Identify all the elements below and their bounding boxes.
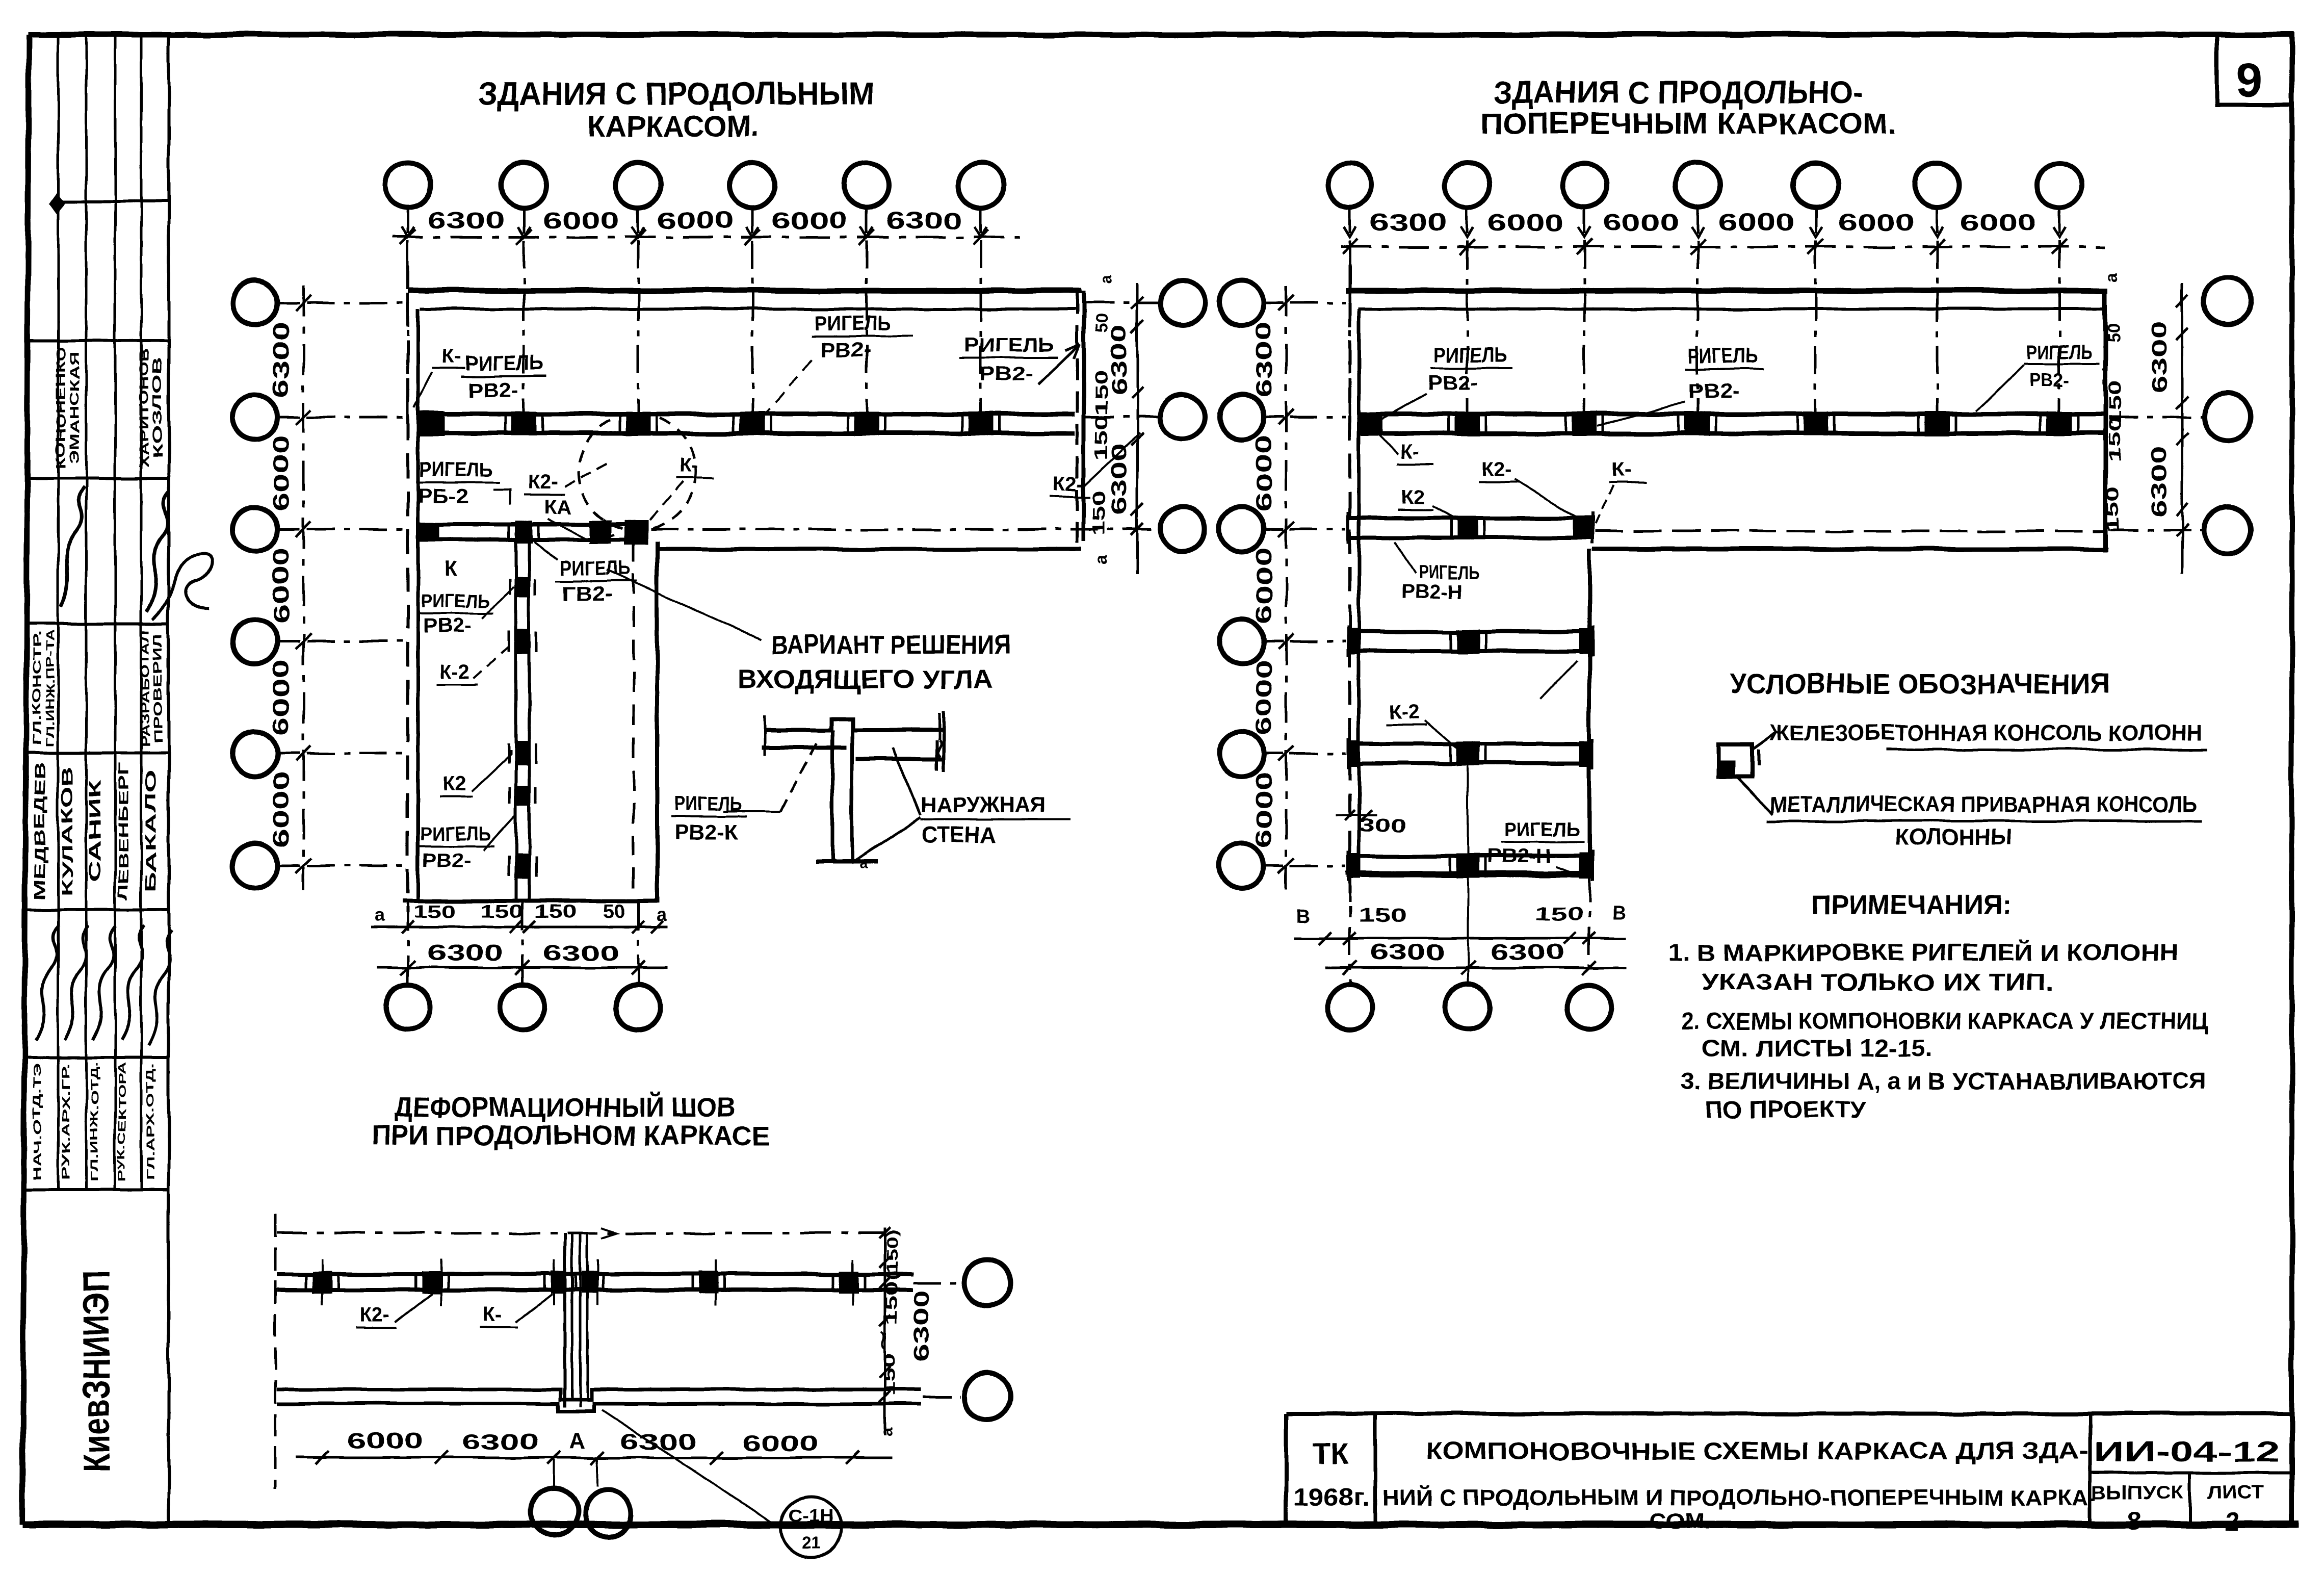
stamp divider a <box>57 200 169 203</box>
right plan east dim tick <box>2176 397 2188 409</box>
left building column K2 row2 x1028 <box>511 411 537 436</box>
leader K2 strip lower <box>472 751 511 791</box>
svg-text:ТК: ТК <box>1313 1438 1349 1471</box>
left plan west grid circle 3 <box>232 507 277 552</box>
right plan top dim tick <box>1459 239 1475 254</box>
svg-text:ГЛ.АРХ.ОТД.: ГЛ.АРХ.ОТД. <box>145 1063 156 1180</box>
stamp signature squiggle 4 <box>65 925 88 1040</box>
left plan west dimension line <box>302 286 305 890</box>
legend underline rc console <box>1886 749 2207 751</box>
left plan top dim tick <box>859 229 874 245</box>
left strip middle beam west line <box>514 539 517 899</box>
title block index horizontal divider <box>2090 1471 2291 1474</box>
corner arc arrow <box>591 519 614 542</box>
dj east dim break squiggle <box>881 1332 885 1349</box>
left building beam row 2 axis dashed <box>1086 416 1160 419</box>
dj beam row top line <box>277 1272 912 1276</box>
left strip bottom dim line 2 <box>377 967 668 969</box>
left plan east grid circle 1 <box>1160 280 1205 325</box>
dj axis extension to circle 2 <box>596 1459 598 1487</box>
left building band south wall <box>659 547 1082 551</box>
leader KA <box>548 519 591 542</box>
left strip bottom dim2 tick <box>401 961 415 975</box>
svg-text:6300: 6300 <box>909 1290 933 1361</box>
svg-text:ГЛ.КОНСТР.: ГЛ.КОНСТР. <box>30 631 43 746</box>
right plan east grid circle 3 <box>2204 507 2251 554</box>
svg-text:6000: 6000 <box>1838 209 1915 236</box>
leader K- arc dashed <box>632 482 683 539</box>
label underline mid <box>812 336 912 338</box>
right plan east dim line <box>2181 283 2184 574</box>
svg-text:КАРКАСОМ.: КАРКАСОМ. <box>588 110 759 143</box>
svg-text:МЕДВЕДЕВ: МЕДВЕДЕВ <box>32 762 48 900</box>
svg-text:ХАРИТОНОВ: ХАРИТОНОВ <box>137 348 151 468</box>
dj detail bubble divider <box>782 1527 840 1529</box>
left plan west grid axis dashed <box>307 753 405 755</box>
svg-text:6000: 6000 <box>269 435 294 511</box>
left building beam row 3 bottom line <box>420 537 637 542</box>
dj east dim line <box>884 1228 886 1435</box>
left strip south wall <box>403 899 659 903</box>
svg-text:150: 150 <box>882 1282 901 1325</box>
right strip column y1258 <box>1456 629 1480 654</box>
dj dim tick <box>709 1451 722 1464</box>
right strip row end cap east y1258 <box>1579 629 1592 654</box>
dj bottom grid circle 1 <box>531 1488 578 1535</box>
left plan top dim tick <box>631 229 646 245</box>
stamp signature squiggle 5 <box>93 925 116 1040</box>
svg-text:150: 150 <box>534 901 577 922</box>
dj axis extension to circle 1 <box>553 1459 555 1487</box>
svg-text:ПРИ ПРОДОЛЬНОМ КАРКАСЕ: ПРИ ПРОДОЛЬНОМ КАРКАСЕ <box>372 1120 770 1151</box>
svg-text:РИГЕЛЬ: РИГЕЛЬ <box>421 591 490 612</box>
left building corner junction column 1 <box>590 520 611 544</box>
right plan top grid axis dashed <box>1466 241 1469 427</box>
left plan west dim tick <box>296 522 311 537</box>
svg-text:6000: 6000 <box>1603 209 1679 236</box>
svg-text:РВ2-К: РВ2-К <box>674 821 738 844</box>
svg-text:КУЛАКОВ: КУЛАКОВ <box>59 766 76 896</box>
label underline gv2 <box>556 580 637 582</box>
svg-text:6000: 6000 <box>1960 209 2036 236</box>
left plan west dim tick <box>296 746 311 761</box>
stamp divider c <box>25 477 169 480</box>
dj east grid circle 2 <box>964 1373 1011 1420</box>
svg-text:6000: 6000 <box>1718 209 1795 236</box>
detail beam right bottom line <box>855 757 943 761</box>
right building column row2 x2878 <box>1454 411 1480 436</box>
left strip axis extension to bottom circles <box>407 903 409 985</box>
dj dim tick <box>547 1451 561 1464</box>
legend symbol side tick <box>1757 749 1760 765</box>
svg-text:6000: 6000 <box>1251 659 1276 736</box>
svg-text:РИГЕЛЬ: РИГЕЛЬ <box>2027 341 2092 364</box>
svg-text:РИГЕЛЬ: РИГЕЛЬ <box>1688 344 1757 368</box>
label underline rb2 <box>416 481 500 483</box>
right plan top dimension line <box>1341 246 2105 248</box>
leader rb2 hook <box>493 489 510 505</box>
svg-text:ВАРИАНТ РЕШЕНИЯ: ВАРИАНТ РЕШЕНИЯ <box>771 630 1011 660</box>
left plan top grid circle 2 <box>502 163 546 208</box>
right strip bottom dim tick <box>1319 932 1331 944</box>
right building beam row 2 top line <box>1360 412 2103 417</box>
dj bottom wall upper line <box>277 1389 921 1400</box>
label underline strip lower <box>417 845 494 847</box>
right strip bottom dim tick <box>1583 932 1596 944</box>
svg-text:6300: 6300 <box>462 1430 538 1455</box>
right strip bottom dim line 2 <box>1325 967 1626 969</box>
right building beam row 2 bottom line <box>1360 431 2103 436</box>
right strip row 3 east end blob <box>1573 516 1595 539</box>
dj beam row bottom line <box>277 1288 912 1292</box>
label underline r3 <box>2024 363 2099 365</box>
right plan west grid circle 5 <box>1219 731 1264 776</box>
right strip row end cap west y1478 <box>1347 741 1361 766</box>
svg-text:К2-: К2- <box>1481 458 1512 481</box>
right strip beam row 3 top line <box>1348 516 1592 520</box>
svg-text:К2-: К2- <box>1053 473 1084 495</box>
leader K-2 r strip <box>1425 721 1459 750</box>
right plan west dim tick <box>1278 634 1294 649</box>
dj east axis dashed 2 <box>923 1396 960 1398</box>
left building west wall <box>416 309 420 901</box>
right building west axis dashed <box>1348 265 1351 913</box>
svg-text:РИГЕЛЬ: РИГЕЛЬ <box>420 823 491 845</box>
right strip bottom grid circle 2 <box>1446 985 1491 1029</box>
right building row 3 axis east dashed <box>2110 529 2203 532</box>
svg-text:РИГЕЛЬ: РИГЕЛЬ <box>1418 562 1479 584</box>
svg-text:РИГЕЛЬ: РИГЕЛЬ <box>1504 818 1580 841</box>
svg-text:6000: 6000 <box>347 1428 423 1453</box>
left strip bottom dim line 1 <box>371 926 668 929</box>
left strip east wall <box>655 542 659 901</box>
title block top line <box>1286 1411 2291 1415</box>
svg-text:РВ2-: РВ2- <box>820 339 871 362</box>
svg-text:6000: 6000 <box>269 771 294 848</box>
right plan west grid axis dashed lower <box>1290 865 1346 867</box>
label underline strip rigel <box>418 613 493 615</box>
right plan top grid axis dashed <box>1696 241 1699 427</box>
sheet number box <box>2217 35 2291 105</box>
svg-text:2: 2 <box>2225 1508 2239 1536</box>
right plan top grid axis dashed <box>1349 241 1351 427</box>
right strip south wall <box>1346 871 1592 875</box>
left plan top grid axis dashed <box>407 241 409 427</box>
left plan west dim tick <box>296 634 311 649</box>
svg-text:6000: 6000 <box>657 207 734 234</box>
leader K- r mid2 <box>1596 485 1613 524</box>
dj joint line 3 <box>579 1233 582 1407</box>
right building beam row 2 east axis dashed <box>2110 416 2203 419</box>
detail right end tick <box>938 713 941 740</box>
svg-text:РБ-2: РБ-2 <box>418 485 469 507</box>
svg-text:6300: 6300 <box>428 207 504 234</box>
leader rv2-n lower <box>1556 867 1578 875</box>
svg-text:а: а <box>877 1427 896 1436</box>
dj east dim tick <box>879 1277 891 1288</box>
svg-text:300: 300 <box>1359 815 1407 836</box>
right strip beam leader diag <box>1540 661 1577 700</box>
svg-text:150: 150 <box>880 1353 899 1397</box>
svg-text:6300: 6300 <box>1370 940 1444 965</box>
left building top outer wall <box>408 288 1082 294</box>
left plan west grid circle 6 <box>232 843 277 888</box>
dj west axis dashed <box>274 1215 277 1489</box>
left plan east dim tick <box>1131 320 1143 332</box>
right plan top grid axis dashed <box>1815 241 1817 427</box>
left plan west grid axis dashed <box>307 302 405 304</box>
svg-text:6000: 6000 <box>1251 771 1276 848</box>
stamp signature squiggle 7 <box>149 931 172 1045</box>
svg-text:6000: 6000 <box>771 207 848 234</box>
svg-text:РУК.АРХ.ГР.: РУК.АРХ.ГР. <box>60 1063 72 1180</box>
title block divider TK <box>1374 1413 1377 1525</box>
svg-text:НИЙ С ПРОДОЛЬНЫМ И ПРОДОЛЬНО-: НИЙ С ПРОДОЛЬНЫМ И ПРОДОЛЬНО-ПОПЕРЕЧНЫМ … <box>1382 1484 2096 1510</box>
left plan west grid circle 5 <box>232 731 277 776</box>
right plan top dim tick <box>1342 239 1357 254</box>
svg-text:К-: К- <box>679 454 698 477</box>
leader rv2k horizontal <box>724 811 781 813</box>
left building column KA row3 <box>515 521 533 543</box>
right building east wall <box>2103 291 2108 552</box>
left strip bottom dim tick <box>402 921 414 933</box>
svg-text:6000: 6000 <box>1251 547 1276 624</box>
svg-text:К-2: К-2 <box>1390 701 1420 724</box>
svg-text:КОЛОННЫ: КОЛОННЫ <box>1895 824 2013 849</box>
stamp divider g <box>25 1056 169 1059</box>
detail left end tick <box>764 716 766 756</box>
svg-text:РВ2-Н: РВ2-Н <box>1487 846 1551 867</box>
right plan west grid axis dashed lower <box>1290 640 1346 643</box>
right building top inner wall <box>1358 307 2103 311</box>
right strip transverse beam row y1698 <box>1348 854 1592 858</box>
right plan top dim tick <box>1929 239 1945 254</box>
right plan east dim tick <box>2176 433 2188 446</box>
svg-text:РИГЕЛЬ: РИГЕЛЬ <box>1433 343 1507 367</box>
left plan top grid circle 4 <box>730 163 775 208</box>
svg-text:К-: К- <box>1400 440 1419 462</box>
right plan west dim tick <box>1278 746 1294 761</box>
right plan top dim tick <box>1808 239 1823 254</box>
left plan top grid axis dashed <box>523 241 526 427</box>
svg-text:(150): (150) <box>884 1230 901 1281</box>
dj dim tick <box>591 1451 604 1464</box>
right plan east dim tick <box>2176 295 2188 307</box>
stamp divider d <box>25 622 169 625</box>
right plan west grid circle 3 <box>1219 507 1264 552</box>
svg-text:РАЗРАБОТАЛ: РАЗРАБОТАЛ <box>139 630 152 747</box>
right building band south wall <box>1592 547 2108 552</box>
svg-text:150: 150 <box>1092 370 1111 416</box>
legend leader to metal console <box>1737 777 1773 814</box>
svg-text:РВ2-: РВ2- <box>980 364 1033 385</box>
svg-text:УСЛОВНЫЕ ОБОЗНАЧЕНИЯ: УСЛОВНЫЕ ОБОЗНАЧЕНИЯ <box>1730 667 2110 700</box>
right strip bottom grid circle 3 <box>1567 985 1612 1029</box>
left building beam row 3 west end column blob <box>418 522 439 542</box>
svg-text:РИГЕЛЬ: РИГЕЛЬ <box>815 311 891 335</box>
svg-text:К-: К- <box>1612 458 1631 481</box>
left plan top grid circle 6 <box>958 163 1003 208</box>
dj east dim tick <box>879 1227 891 1239</box>
label underline r1 <box>1430 367 1513 369</box>
title block divider index <box>2088 1413 2092 1525</box>
right plan top grid circle 4 <box>1675 163 1720 208</box>
svg-text:РУК.СЕКТОРА: РУК.СЕКТОРА <box>117 1062 128 1182</box>
dj column x1390 <box>699 1271 718 1294</box>
svg-text:ГЛ.ИНЖ.ОТД.: ГЛ.ИНЖ.ОТД. <box>89 1062 100 1182</box>
right strip bottom dim2 tick <box>1343 961 1357 975</box>
right strip column y1478 <box>1456 741 1480 766</box>
right plan west grid axis dashed <box>1290 416 1346 419</box>
left strip bottom dim tick <box>651 921 663 933</box>
dj east grid circle 1 <box>964 1259 1011 1306</box>
svg-text:150: 150 <box>2103 487 2123 533</box>
svg-text:РВ2-Н: РВ2-Н <box>1401 582 1462 603</box>
right strip bottom dim tick <box>1344 932 1356 944</box>
left strip column K2 y1478 <box>515 741 530 766</box>
right strip row end cap west y1258 <box>1347 629 1361 654</box>
right plan east dim tick <box>2176 504 2188 516</box>
right strip center axis line <box>1467 742 1469 984</box>
right plan west dim tick <box>1278 409 1294 425</box>
svg-text:ЛИСТ: ЛИСТ <box>2207 1482 2263 1504</box>
left plan east grid circle 3 <box>1160 507 1205 552</box>
right strip bottom dim tick <box>1564 932 1576 944</box>
left plan east dim tick <box>1131 523 1143 535</box>
right plan top grid circle 5 <box>1793 163 1838 208</box>
svg-text:НАРУЖНАЯ: НАРУЖНАЯ <box>921 793 1046 818</box>
svg-text:КиевЗНИИЭП: КиевЗНИИЭП <box>75 1271 117 1473</box>
svg-text:ДЕФОРМАЦИОННЫЙ ШОВ: ДЕФОРМАЦИОННЫЙ ШОВ <box>395 1092 735 1123</box>
leader K- top left <box>414 372 432 408</box>
right building column row2 x3562 <box>1803 411 1829 436</box>
svg-text:6300: 6300 <box>1251 322 1276 398</box>
right plan top dim tick <box>1577 239 1592 254</box>
right plan east dim tick <box>2176 524 2188 536</box>
svg-text:21: 21 <box>801 1534 821 1553</box>
right building column row2 x3108 <box>1572 411 1597 436</box>
left building west axis dashed <box>406 265 409 913</box>
left building row 3 axis dashed to east <box>650 528 1157 531</box>
leader K2 r <box>1432 506 1461 521</box>
svg-text:МЕТАЛЛИЧЕСКАЯ ПРИВАРНАЯ КОНСОЛ: МЕТАЛЛИЧЕСКАЯ ПРИВАРНАЯ КОНСОЛЬ <box>1770 792 2197 817</box>
svg-text:6300: 6300 <box>885 207 962 234</box>
right east dim break squiggle <box>2102 369 2106 388</box>
svg-text:К: К <box>445 557 458 581</box>
detail beam top line <box>765 719 943 730</box>
svg-text:6300: 6300 <box>2147 446 2171 517</box>
dj east dim tick <box>879 1391 891 1402</box>
left plan top dim tick <box>745 229 760 245</box>
stamp divider a diamond <box>50 194 64 212</box>
label underline rv2k <box>671 816 747 818</box>
svg-text:150: 150 <box>413 901 456 922</box>
leader K2- mid band <box>1085 433 1140 485</box>
svg-text:ГВ2-: ГВ2- <box>562 583 613 605</box>
title block left line <box>1284 1413 1288 1525</box>
left strip axis extension to bottom circles <box>521 903 524 985</box>
svg-text:150: 150 <box>481 901 524 922</box>
svg-text:а: а <box>374 904 385 925</box>
right strip beam row 3 bottom line <box>1348 535 1592 539</box>
svg-text:БАКАЛО: БАКАЛО <box>143 770 160 892</box>
stamp signature flourish overflow <box>153 553 213 620</box>
left plan west dim tick <box>296 858 311 873</box>
dj joint line 4 <box>586 1233 589 1400</box>
left plan west grid circle 2 <box>232 395 277 440</box>
leader rv2k diagonal dashed <box>781 740 819 812</box>
right strip transverse beam row y1478 <box>1348 742 1592 746</box>
left plan top grid circle 3 <box>616 163 661 208</box>
left plan top dim tick <box>400 229 415 245</box>
left plan top grid circle 1 <box>385 163 430 208</box>
right plan west dimension line <box>1285 286 1288 890</box>
leader stena lower <box>851 818 921 863</box>
dj dim tick <box>846 1451 859 1464</box>
left plan west grid circle 1 <box>232 280 277 325</box>
svg-text:6300: 6300 <box>1491 940 1564 965</box>
left plan east dim line <box>1136 283 1139 574</box>
dj column x632 <box>312 1271 332 1294</box>
svg-text:6300: 6300 <box>620 1430 696 1455</box>
left plan east grid circle 2 <box>1160 395 1205 440</box>
label naruzhnaya underline <box>921 819 1070 821</box>
dj column x1665 <box>839 1271 858 1294</box>
left plan west grid axis dashed <box>307 528 405 531</box>
svg-text:В: В <box>1612 903 1626 924</box>
right plan top grid axis dashed <box>1936 241 1939 427</box>
left building beam row 2 bottom line <box>420 431 1075 436</box>
right strip column y1698 <box>1456 854 1480 878</box>
right strip axis extension east <box>1588 874 1591 969</box>
svg-text:РВ2-: РВ2- <box>1427 372 1478 394</box>
dj east axis dashed 1 <box>912 1282 960 1284</box>
left plan top dim tick <box>973 229 988 245</box>
svg-text:8: 8 <box>2127 1507 2141 1535</box>
right plan top grid circle 6 <box>1915 163 1960 208</box>
title block vypusk list divider <box>2188 1473 2191 1525</box>
stamp divider b <box>25 339 169 342</box>
dj joint column west <box>551 1271 566 1294</box>
detail right wall west line <box>935 740 938 770</box>
left strip east wall dashed <box>633 542 635 897</box>
svg-text:НАЧ.ОТД.ТЭ: НАЧ.ОТД.ТЭ <box>32 1063 43 1180</box>
svg-text:2. СХЕМЫ КОМПОНОВКИ КАРКАСА У: 2. СХЕМЫ КОМПОНОВКИ КАРКАСА У ЛЕСТНИЦ <box>1681 1008 2209 1034</box>
left strip middle beam east line <box>528 539 531 899</box>
svg-text:В: В <box>1296 906 1310 927</box>
svg-text:К2-: К2- <box>359 1304 389 1326</box>
left strip bottom grid circle 2 <box>500 985 545 1029</box>
svg-text:а: а <box>2103 273 2121 282</box>
right building column row2 x3800 <box>1924 411 1950 436</box>
stamp signature squiggle 3 <box>36 925 59 1040</box>
stamp divider h <box>25 1188 169 1191</box>
stamp divider e <box>25 752 169 755</box>
left strip bottom grid circle 3 <box>616 985 661 1029</box>
detail column foot <box>816 859 878 863</box>
legend underline metal console <box>1767 820 2202 822</box>
dj dim tick <box>434 1451 448 1464</box>
detail wavy cut right <box>938 740 942 757</box>
left building east wall of band <box>1082 291 1086 542</box>
svg-text:КОМПОНОВОЧНЫЕ СХЕМЫ КАРКАСА: КОМПОНОВОЧНЫЕ СХЕМЫ КАРКАСА ДЛЯ ЗДА- <box>1426 1438 2088 1465</box>
right building beam row 2 west end blob <box>1359 412 1382 435</box>
leader strip rigel <box>482 586 514 619</box>
svg-text:6300: 6300 <box>427 941 503 966</box>
left building corner junction column 2 <box>624 520 648 545</box>
left plan east dim tick <box>1131 504 1143 516</box>
right strip axis extension west <box>1349 874 1351 984</box>
